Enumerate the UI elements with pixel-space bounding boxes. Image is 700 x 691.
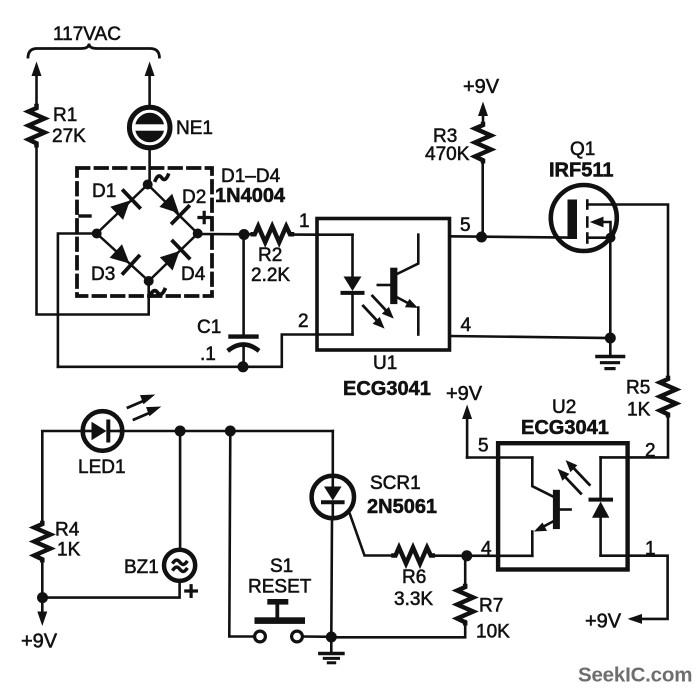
svg-text:3.3K: 3.3K <box>394 589 433 610</box>
wire Q1 source down <box>609 240 612 338</box>
arrowhead NE1 AC terminal <box>145 62 155 77</box>
svg-text:4: 4 <box>461 315 472 336</box>
light arrows U1 <box>363 296 394 329</box>
wire U2 pin1 to +9V <box>601 556 668 619</box>
resistor R7 <box>457 586 473 623</box>
svg-text:S1: S1 <box>270 556 293 577</box>
svg-text:1K: 1K <box>57 540 81 561</box>
svg-text:+9V: +9V <box>463 76 500 98</box>
svg-text:D2: D2 <box>182 187 206 208</box>
svg-text:U1: U1 <box>373 353 397 374</box>
svg-text:1N4004: 1N4004 <box>215 185 286 207</box>
wire U1 pin5 to Q1 gate <box>450 236 568 237</box>
svg-text:ECG3041: ECG3041 <box>521 417 609 439</box>
arrowhead +9V bottom left <box>37 612 47 627</box>
node LED1 rail BZ1 <box>175 426 186 437</box>
wire R3 arrow line <box>482 113 485 125</box>
thyristor SCR1 <box>312 476 354 519</box>
switch S1 <box>255 599 306 642</box>
node bridge right (+) <box>193 229 203 239</box>
diode U2 internal LED <box>591 457 612 555</box>
label + BZ1 <box>186 586 197 597</box>
svg-text:R1: R1 <box>53 105 77 126</box>
svg-text:R6: R6 <box>402 567 426 588</box>
ground Q1 <box>597 338 624 369</box>
wire S1 left <box>229 431 255 637</box>
svg-text:D1: D1 <box>92 181 116 202</box>
svg-text:D3: D3 <box>91 264 115 285</box>
wire C1 bottom lead <box>242 347 245 367</box>
svg-text:R2: R2 <box>258 245 282 266</box>
wire NE1 top arrow line <box>148 73 151 108</box>
svg-text:D1–D4: D1–D4 <box>221 166 281 187</box>
svg-text:+9V: +9V <box>446 383 483 405</box>
buzzer BZ1 <box>164 550 195 581</box>
wire SCR1 anode <box>331 431 334 477</box>
wire U2 pin4 internal <box>499 554 533 557</box>
wire bridge diamond <box>97 185 198 282</box>
resistor R2 <box>253 226 292 242</box>
wire S1 right to ground junction <box>303 635 332 638</box>
svg-text:5: 5 <box>478 436 489 457</box>
wire BZ1 bottom to R4 junction <box>43 582 180 598</box>
resistor R5 <box>660 378 676 415</box>
svg-text:ECG3041: ECG3041 <box>343 378 431 400</box>
node bridge top (~) <box>143 180 153 190</box>
node R6/R7 junction <box>461 550 472 561</box>
resistor R4 <box>34 523 50 560</box>
arrowhead R3 +9V <box>478 102 488 117</box>
node LED1 rail S1 <box>225 426 236 437</box>
wire +9V arrow U2 pin5 <box>466 416 469 458</box>
wire BZ1 top <box>179 431 182 548</box>
op-to U1 box <box>317 219 450 351</box>
svg-text:SeekIC.com: SeekIC.com <box>578 664 692 687</box>
wire R2 to U1 pin1 <box>292 233 318 236</box>
diode LED1 <box>83 411 123 451</box>
svg-text:U2: U2 <box>552 397 576 418</box>
node Q1 source/pin4 junction <box>605 333 616 344</box>
svg-text:470K: 470K <box>425 144 470 165</box>
wire LED1 right rail <box>119 430 333 433</box>
wire R7 top <box>464 556 467 587</box>
node R3/pin5 junction <box>476 232 487 243</box>
svg-text:C1: C1 <box>197 317 221 338</box>
svg-text:LED1: LED1 <box>78 457 126 478</box>
wire U1 pin2 internal <box>318 333 353 336</box>
svg-text:2N5061: 2N5061 <box>367 496 437 518</box>
svg-text:4: 4 <box>481 539 492 560</box>
dashed box bridge D1-D4 <box>77 168 212 296</box>
svg-text:RESET: RESET <box>248 577 312 598</box>
wire U2 pin5 <box>467 456 532 459</box>
svg-text:2.2K: 2.2K <box>251 265 290 286</box>
wire SCR1 cathode down <box>330 519 333 638</box>
wire bridge left node to C1 bottom rail <box>58 234 97 367</box>
svg-text:5: 5 <box>460 215 471 236</box>
wire C1 top lead <box>242 236 245 335</box>
svg-text:R7: R7 <box>479 596 503 617</box>
wire Q1 drain to R5 <box>612 205 668 380</box>
label ~ top <box>155 175 168 180</box>
wire R5 to U2 pin2 <box>601 414 668 458</box>
svg-text:Q1: Q1 <box>570 139 595 160</box>
wire R7 bottom to S1 ground junction <box>331 621 465 637</box>
svg-text:1K: 1K <box>627 400 651 421</box>
svg-text:+9V: +9V <box>585 611 622 633</box>
wire R1 bottom to bridge AC bottom <box>37 145 149 315</box>
node junction R2/C1 <box>239 229 250 240</box>
label minus <box>80 214 90 217</box>
svg-text:R4: R4 <box>55 520 80 541</box>
optocoupler U2 box <box>498 443 627 569</box>
svg-text:1: 1 <box>299 211 310 232</box>
wire NE1 to bridge top node <box>148 148 151 185</box>
wire U1 pin4 to Q1 source junction <box>450 336 611 338</box>
node C1 bottom junction <box>238 361 249 372</box>
svg-text:R5: R5 <box>626 378 650 399</box>
svg-text:IRF511: IRF511 <box>549 160 613 182</box>
node bridge left (-) <box>92 229 102 239</box>
ground S1 <box>320 637 343 663</box>
wire C1 bottom rail to U1 pin2 <box>58 335 318 367</box>
resistor R3 <box>475 124 491 161</box>
wire bridge right node to R2 <box>198 233 253 236</box>
diode D3 <box>110 244 139 273</box>
capacitor C1 <box>230 337 258 350</box>
svg-text:SCR1: SCR1 <box>370 473 421 494</box>
wire R4 to +9V arrow <box>41 559 44 614</box>
diode D2 <box>159 194 188 223</box>
svg-text:.1: .1 <box>200 344 216 365</box>
arrowhead left AC terminal <box>32 62 42 77</box>
resistor R1 <box>29 106 45 145</box>
wire R6 to U2 pin4 <box>433 554 499 557</box>
svg-text:2: 2 <box>645 441 656 462</box>
brace under 117VAC <box>28 44 159 58</box>
transistor U2 internal phototransistor <box>532 458 570 556</box>
neon lamp NE1 <box>129 107 170 148</box>
label plus <box>199 212 210 222</box>
wire LED1 left to R4 <box>42 431 84 524</box>
svg-text:10K: 10K <box>476 622 510 643</box>
diode U1 internal LED <box>343 235 363 335</box>
wire R3 to pin5 node <box>481 160 484 237</box>
svg-text:117VAC: 117VAC <box>53 24 121 45</box>
wire left AC terminal arrow line <box>35 73 38 108</box>
svg-text:D4: D4 <box>181 264 206 285</box>
svg-text:27K: 27K <box>52 126 86 147</box>
svg-text:+9V: +9V <box>21 631 58 653</box>
svg-text:BZ1: BZ1 <box>124 557 159 578</box>
wire U1 pin1 internal <box>318 233 353 236</box>
light arrows U2 <box>558 460 590 493</box>
label ~ bottom <box>150 290 164 296</box>
svg-text:NE1: NE1 <box>176 118 213 139</box>
arrowhead +9V U2 pin5 <box>462 405 472 420</box>
transistor U1 internal phototransistor <box>378 235 419 335</box>
diode D1 <box>110 191 139 220</box>
node S1/SCR/ground junction <box>326 632 337 643</box>
svg-text:2: 2 <box>298 311 309 332</box>
light arrows LED1 <box>128 395 161 420</box>
arrowhead +9V U2 pin1 <box>628 614 643 624</box>
node R4/BZ1 junction <box>37 592 48 603</box>
wire SCR1 gate to R6 <box>349 511 394 556</box>
transistor Q1 MOSFET <box>551 185 617 251</box>
resistor R6 <box>394 548 433 564</box>
node bridge bottom (~) <box>144 276 154 286</box>
diode D4 <box>160 241 189 270</box>
